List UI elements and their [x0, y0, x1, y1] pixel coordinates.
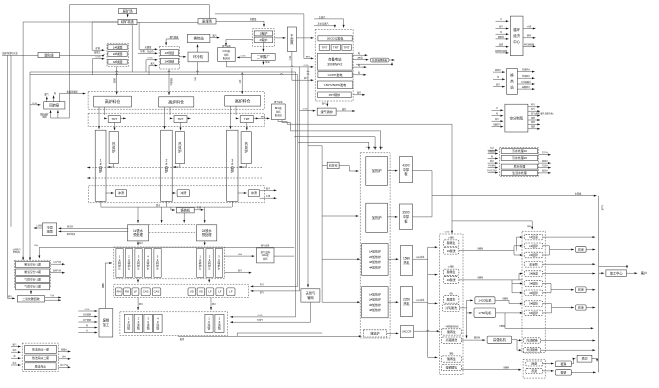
wire v gas c2: [251, 290, 300, 295]
wire desal in 2: [11, 348, 21, 353]
wire hm to conv 1: [137, 241, 143, 245]
wire cal2 out: [543, 272, 595, 274]
wire digestion out: [60, 54, 104, 56]
svg-text:污水处理1#: 污水处理1#: [512, 148, 527, 153]
svg-text:CCPP发电: CCPP发电: [328, 72, 343, 77]
svg-text:污水处理2#: 污水处理2#: [512, 155, 527, 160]
svg-text:1#酸洗: 1#酸洗: [447, 248, 456, 253]
wire to coating 3: [552, 306, 574, 308]
hop v gas d1: [307, 71, 309, 72]
box pickling 1: [443, 248, 459, 255]
hop bus x281: [280, 74, 282, 75]
box coal yard: [198, 18, 216, 24]
svg-text:VD: VD: [199, 290, 203, 294]
box ore yard: [119, 8, 137, 13]
wire frame right: [215, 14, 314, 60]
group coating lines: [522, 231, 545, 353]
wire hm ladle 2: [183, 213, 185, 223]
wire scrap in 2: [78, 312, 97, 317]
wire cal feed: [452, 221, 533, 230]
wire hs fork 2: [517, 340, 522, 352]
wire steel to cast 1: [137, 298, 143, 311]
box 150t25mw: [317, 81, 352, 89]
svg-text:高炉料仓: 高炉料仓: [105, 99, 121, 104]
group mill furnaces: [360, 153, 390, 338]
wire coal yard feed: [208, 5, 210, 19]
box domestic water: [501, 170, 538, 175]
svg-text:石灰窑: 石灰窑: [329, 162, 338, 167]
svg-text:外部钢卷: 外部钢卷: [526, 348, 537, 352]
box bf 2: [161, 130, 173, 201]
wire asu out 5: [528, 120, 540, 125]
wire hs pickle to mill: [462, 336, 486, 342]
box sewage 1: [501, 148, 538, 153]
svg-text:罩退: 罩退: [531, 368, 537, 373]
svg-text:环冷机: 环冷机: [193, 54, 204, 59]
wire trt3 to bfg: [259, 116, 270, 119]
wire methanol cog: [237, 55, 251, 58]
wire kiln up2: [53, 96, 55, 102]
hop cdq over h1: [291, 66, 293, 67]
box converter b1: [197, 249, 204, 278]
wire ce in 5: [496, 43, 509, 48]
box processing center: [606, 270, 627, 276]
box hot mill 2250: [400, 287, 412, 317]
wire bus v3: [22, 22, 24, 259]
box reheat group 2: [362, 287, 388, 318]
wire trt2 out: [187, 117, 191, 119]
wire cog to kiln: [30, 103, 41, 106]
box slag 3: [248, 190, 259, 197]
wire rotary kiln feed2: [57, 110, 59, 118]
box hot stove 1: [109, 132, 118, 164]
wire bf2 trt in: [170, 117, 173, 119]
wire acid feed 1: [428, 246, 438, 248]
svg-text:LDG: LDG: [379, 147, 384, 149]
svg-text:煤气锅炉: 煤气锅炉: [320, 109, 332, 114]
box lime kiln: [327, 162, 339, 168]
wire scrap in 4: [78, 323, 97, 328]
wire slab to rfg2: [322, 301, 360, 303]
box acid regen 3: [443, 296, 459, 303]
wire bf3 feed b: [235, 106, 237, 115]
wire hm down 1: [137, 207, 139, 223]
wire temper coil: [499, 313, 594, 329]
wire ldg out: [224, 254, 254, 257]
svg-text:二氧化碳回收: 二氧化碳回收: [22, 296, 39, 301]
box pig casting machine: [176, 207, 194, 213]
svg-text:1#连退: 1#连退: [529, 235, 538, 239]
svg-text:6#镀锌: 6#镀锌: [529, 311, 538, 315]
wire fines to pellet: [92, 22, 118, 51]
wire top frame: [70, 4, 210, 6]
svg-text:COG: COG: [304, 65, 309, 67]
wire sinter down: [168, 69, 170, 95]
wire v gas b: [251, 75, 298, 288]
group sintering: [159, 47, 179, 69]
wire ladle dash 2: [149, 232, 195, 234]
wire hs fork: [512, 339, 522, 341]
box pickling 2: [443, 277, 459, 284]
box refiner VD b1: [188, 288, 196, 296]
wire rfg1 to 1580: [388, 258, 398, 260]
svg-text:RH: RH: [125, 290, 129, 294]
box circular economy center: [510, 16, 523, 56]
wire steam to sinter: [149, 61, 158, 74]
hop bus x197: [196, 71, 198, 72]
wire asu in 3: [492, 117, 504, 122]
wire ba to cr: [542, 370, 553, 372]
box converter 5: [154, 249, 161, 278]
wire hot metal 2: [165, 201, 167, 207]
wire v gas a: [230, 72, 295, 318]
wire oxy out2: [50, 269, 64, 274]
group trt band: [88, 113, 264, 126]
wire 1580 out: [413, 255, 428, 259]
group desalination: [22, 343, 58, 371]
wire trt3 out: [254, 117, 259, 119]
wire cal to tin: [542, 362, 553, 364]
box gas facility cog: [218, 48, 236, 62]
svg-text:彩涂预: 彩涂预: [529, 262, 538, 266]
box ring cooler: [188, 52, 208, 62]
box pellet 2: [108, 51, 127, 56]
wire asu out 1: [528, 103, 540, 108]
wire desal out 3: [58, 363, 70, 368]
wire acid bus: [427, 247, 429, 357]
svg-text:循环经济中心: 循环经济中心: [513, 27, 520, 44]
box bf stockhouse 2: [159, 97, 194, 107]
box gas facility bfg: [272, 104, 286, 120]
box heat station 2: [507, 69, 518, 95]
wire asu out 4: [528, 116, 540, 121]
svg-text:彩涂: 彩涂: [578, 246, 584, 251]
wire slab to rf2: [322, 215, 358, 217]
wire anthracite: [139, 22, 157, 50]
wire bf2 feed b: [169, 107, 171, 115]
wire bf3 feed a: [229, 106, 231, 129]
box trt 3: [240, 116, 253, 123]
wire power out2: [353, 56, 368, 61]
wire rfg2 to 2250: [388, 301, 398, 303]
box coke oven 2: [254, 37, 273, 43]
wire L2: [282, 120, 383, 150]
box trt c: [342, 45, 351, 51]
box caster 1: [124, 314, 132, 332]
wire stove2 down: [173, 164, 180, 168]
svg-text:CAS: CAS: [154, 290, 160, 294]
svg-text:废钢加工: 废钢加工: [103, 318, 110, 327]
wire water out 3: [538, 163, 550, 168]
wire L4: [298, 142, 371, 150]
wire bus v4 arrow: [29, 256, 31, 260]
svg-text:原矿场: 原矿场: [123, 8, 134, 13]
wire asu out 6: [528, 125, 540, 130]
box gas boiler house: [317, 108, 336, 115]
svg-text:隧道炉: 隧道炉: [371, 330, 380, 335]
box plate mill 4300: [399, 157, 412, 183]
wire boiler house steam: [336, 107, 355, 112]
svg-text:TRT: TRT: [111, 117, 117, 121]
box ccpp: [318, 72, 352, 78]
box 35t boiler: [318, 92, 352, 98]
svg-text:TRT: TRT: [244, 117, 250, 121]
svg-text:酸再生: 酸再生: [447, 356, 456, 361]
wire ce out 2: [523, 34, 536, 39]
svg-text:2250热轧: 2250热轧: [403, 297, 411, 306]
box reheat furnace 2: [366, 203, 388, 232]
wire desal out 2: [58, 355, 70, 360]
wire ce in 2: [496, 24, 509, 29]
group captive power plant: [315, 30, 353, 102]
wire galv56 bracket: [543, 304, 552, 313]
box galv 6: [524, 310, 543, 316]
box caster 3: [144, 314, 153, 332]
svg-text:酸再生: 酸再生: [447, 296, 456, 301]
wire bus v4: [29, 72, 31, 256]
wire scrap in 3: [78, 318, 97, 323]
wire ore yard down: [127, 14, 129, 18]
wire conv steam out: [224, 269, 251, 274]
wire hx2 in 3: [493, 83, 505, 88]
wire coating2 out: [586, 289, 595, 291]
wire pickle2 v: [511, 280, 513, 293]
wire coating3 out: [586, 306, 595, 308]
wire 4300 out: [413, 171, 433, 196]
svg-text:2#铁水预处理: 2#铁水预处理: [202, 228, 213, 237]
wire oxy out1: [50, 260, 64, 265]
box digestion line: [38, 52, 60, 57]
box ore concentrate: [118, 19, 137, 25]
box slag 1: [115, 190, 126, 197]
box rotary kiln: [44, 102, 65, 109]
wire cooler exhaust: [197, 62, 199, 75]
group casting: [120, 312, 228, 336]
wire boiler gas down: [322, 101, 328, 107]
svg-text:35T锅炉: 35T锅炉: [329, 92, 341, 97]
box pellet 1: [108, 44, 127, 49]
svg-text:生活水处理: 生活水处理: [512, 170, 527, 175]
wire galv1 in: [514, 245, 523, 247]
box refiner CAS 4: [141, 288, 150, 296]
svg-text:TRT: TRT: [178, 117, 184, 121]
box sewage 2: [501, 155, 538, 160]
svg-text:COG: COG: [96, 57, 101, 59]
box coating 3: [576, 305, 587, 311]
box batch anneal: [526, 368, 543, 374]
box oxygen 3: [16, 276, 50, 282]
wire bf3 slag: [238, 192, 247, 194]
wire trt2 down: [179, 123, 181, 131]
wire power out1: [353, 51, 367, 56]
svg-text:1580热轧: 1580热轧: [403, 256, 411, 265]
wire pellet down: [116, 66, 118, 94]
svg-text:1焦炉: 1焦炉: [259, 31, 267, 36]
wire bus v2: [10, 55, 12, 226]
svg-text:COG: COG: [85, 309, 90, 311]
wire boiler steam out: [353, 91, 365, 96]
svg-text:LF: LF: [134, 290, 138, 294]
wire asu in 4: [492, 123, 504, 128]
box gas facility ldg: [257, 248, 275, 263]
svg-text:彩涂: 彩涂: [578, 287, 584, 292]
box trt 1: [108, 116, 120, 123]
svg-text:二甲醇厂: 二甲醇厂: [257, 54, 271, 59]
box caster 2: [134, 314, 143, 332]
group oxygen stations: [15, 260, 51, 288]
svg-text:加热炉: 加热炉: [372, 215, 383, 220]
wire bfg dash 1: [87, 166, 262, 168]
box cdq: [287, 27, 296, 51]
wire hx2 in 1: [493, 68, 505, 73]
wire pickle1 coil: [459, 246, 514, 250]
wire galv4 in: [512, 292, 523, 294]
wire plate product: [432, 191, 597, 196]
svg-text:1420轧机: 1420轧机: [478, 297, 492, 302]
box cal 1: [524, 234, 543, 240]
svg-text:客户: 客户: [641, 270, 647, 275]
wire rf1 to 4300: [388, 170, 398, 172]
box cdq power: [318, 35, 352, 40]
wire ldg to oxy: [34, 245, 294, 258]
svg-text:2焦炉: 2焦炉: [259, 37, 267, 42]
box converter 1: [116, 249, 123, 278]
svg-text:1#镀锌: 1#镀锌: [529, 244, 538, 248]
wire bus H2: [30, 71, 296, 73]
wire desal in 3: [11, 354, 21, 359]
wire trt1 out: [121, 117, 126, 119]
box raw water: [501, 164, 538, 169]
svg-text:气体空分 1期: 气体空分 1期: [24, 278, 41, 282]
wire kiln up1: [46, 97, 48, 102]
svg-text:3#球团: 3#球团: [113, 59, 123, 64]
wire hm down 2: [204, 207, 206, 223]
hop v gas d2: [307, 74, 309, 75]
wire conv to ref 2: [208, 279, 210, 283]
wire lime stub: [322, 165, 327, 167]
wire ce in 6: [495, 49, 509, 54]
box coil internal: [524, 338, 541, 343]
svg-text:冷轧酸洗: 冷轧酸洗: [445, 305, 457, 310]
wire ng down: [230, 302, 310, 323]
wire fgd elbow: [165, 35, 179, 45]
wire ce out 3: [523, 42, 536, 47]
svg-text:横切: 横切: [582, 356, 588, 361]
wire concentrate down: [131, 25, 133, 72]
box galv 1: [524, 243, 543, 249]
box converter 2: [125, 249, 132, 278]
box desal thermal 2: [25, 355, 57, 361]
box desal membrane: [25, 363, 56, 370]
svg-text:膜法海淡: 膜法海淡: [35, 364, 46, 368]
group refining: [114, 284, 249, 297]
svg-text:2#烧结: 2#烧结: [165, 58, 175, 63]
svg-text:COG: COG: [148, 58, 153, 60]
box acid regen 1: [443, 240, 459, 247]
wire si pickle out: [462, 365, 522, 370]
svg-text:消化线: 消化线: [44, 52, 54, 57]
box mill 1420: [475, 297, 495, 304]
box hot stove 2: [175, 132, 184, 164]
svg-text:2#球团: 2#球团: [113, 51, 123, 56]
svg-text:高强酸洗: 高强酸洗: [446, 337, 458, 342]
wire bus v1: [8, 55, 16, 299]
box pickling hs: [441, 337, 461, 343]
wire slag steam out: [260, 186, 277, 191]
svg-text:BFG: BFG: [373, 147, 378, 149]
group slag flushing: [89, 186, 265, 203]
box caster 4: [154, 314, 163, 332]
wire cold mill v: [465, 300, 467, 338]
svg-text:TRT: TRT: [344, 46, 350, 50]
wire asu out 2: [528, 107, 540, 112]
wire ore line: [23, 21, 118, 23]
wire pig iron out: [194, 206, 203, 211]
wire scrap in 5: [78, 328, 97, 333]
wire trt1 down: [113, 123, 115, 131]
wire bus v5 top: [49, 5, 69, 118]
wire scrap in 1: [78, 309, 97, 312]
box converter 4: [144, 249, 151, 278]
wire oxy to co2: [30, 290, 32, 294]
svg-text:连退: 连退: [531, 361, 537, 366]
wire galv3 in: [512, 282, 523, 284]
wire main steam stub: [314, 15, 345, 28]
svg-text:150T25MW发电: 150T25MW发电: [324, 82, 346, 87]
svg-text:制氧空分 2期: 制氧空分 2期: [24, 270, 41, 274]
wire lime elbow: [339, 166, 358, 172]
wire cast right top: [237, 333, 322, 336]
svg-text:3#镀锌: 3#镀锌: [529, 282, 538, 286]
wire galv2 in: [514, 254, 523, 256]
wire coating1 out: [586, 248, 595, 250]
wire slag line: [2, 54, 38, 56]
svg-text:LDG: LDG: [34, 245, 39, 247]
svg-text:VD: VD: [190, 290, 194, 294]
wire steel to cast 2: [210, 298, 216, 311]
box heat exchange station: [187, 34, 210, 42]
group water treatment: [499, 147, 538, 176]
wire hot metal line: [101, 203, 232, 207]
group converters: [114, 247, 225, 279]
wire hx2 out 4: [517, 85, 534, 90]
box galv 4: [524, 290, 543, 296]
wire mid steam stub: [314, 22, 336, 28]
svg-text:硅钢酸轧: 硅钢酸轧: [446, 365, 458, 370]
svg-text:彩涂: 彩涂: [578, 305, 584, 310]
wire slab bus v: [308, 146, 322, 302]
svg-text:1#烧结: 1#烧结: [165, 50, 175, 55]
svg-text:酸再生: 酸再生: [447, 329, 456, 334]
box bf 3: [227, 130, 238, 201]
svg-text:COG: COG: [366, 147, 371, 149]
wire cal2 in2: [519, 273, 523, 280]
box sinter 2: [160, 58, 178, 64]
svg-text:2#酸洗: 2#酸洗: [447, 277, 456, 282]
wire bf1 feed a: [98, 107, 100, 129]
wire desal in 4: [11, 361, 21, 366]
box reheat group 1: [362, 244, 388, 276]
svg-text:内部钢卷: 内部钢卷: [526, 339, 537, 343]
wire bf3 trt in: [236, 117, 239, 119]
group pickling column: [440, 234, 464, 375]
box trt a: [319, 45, 330, 51]
wire water out 4: [538, 169, 550, 174]
group annealing: [523, 359, 545, 378]
wire L3: [294, 137, 377, 150]
wire asu out 3: [528, 111, 554, 116]
box slitting: [577, 355, 592, 362]
